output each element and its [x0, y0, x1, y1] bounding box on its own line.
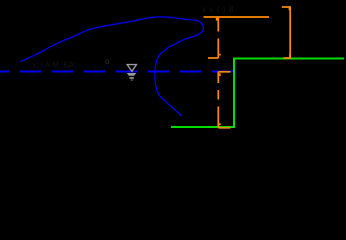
small orange arrow nubs: [216, 8, 291, 125]
still water level dashed line: [0, 71, 234, 73]
right dim cap: [282, 6, 291, 8]
wave profile curve: [21, 17, 204, 116]
SWL tick to wall: [218, 71, 230, 73]
top horizontal crest level line: [204, 16, 270, 18]
bottom foot along floor: [218, 127, 230, 129]
lower vertical dashed: SWL to floor: [217, 72, 219, 128]
right dim bottom foot: [284, 57, 292, 59]
foot tick at wall-top level: [208, 57, 218, 59]
svg-text:o: o: [105, 57, 110, 66]
svg-text:x x ( ) 8: x x ( ) 8: [202, 5, 234, 14]
right dim vertical: [289, 7, 291, 58]
orange dimension lines: [204, 7, 292, 128]
upper vertical dashed: crest line to wall top: [217, 17, 219, 58]
svg-text::x: i.A.M. KA:: :x: i.A.M. KA:: [30, 61, 76, 70]
structure (green step): [171, 59, 344, 128]
water level symbol: [127, 65, 137, 81]
